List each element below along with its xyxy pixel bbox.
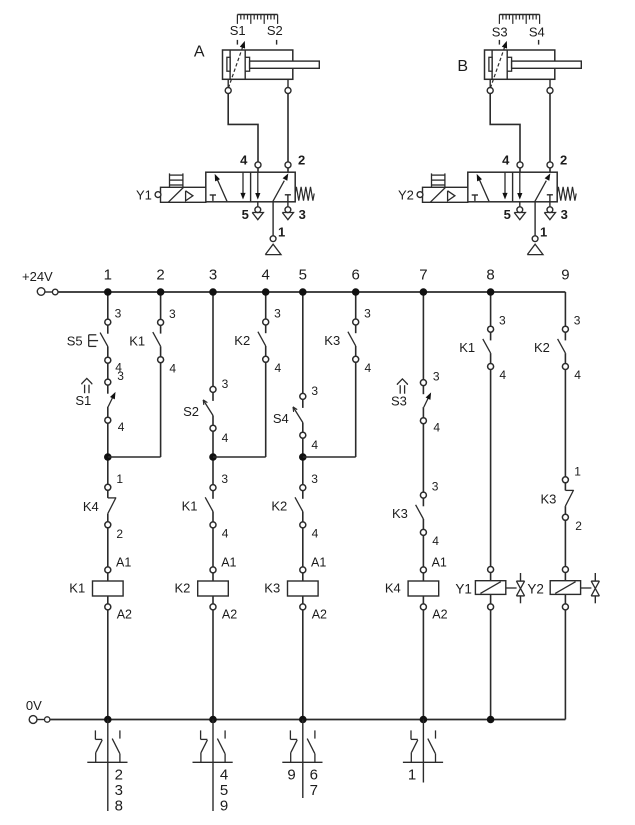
svg-text:1: 1 (104, 267, 112, 284)
svg-text:K4: K4 (385, 581, 401, 596)
svg-text:A1: A1 (116, 555, 131, 569)
svg-text:4: 4 (499, 368, 506, 382)
svg-text:9: 9 (561, 267, 569, 284)
svg-text:2: 2 (156, 267, 164, 284)
svg-text:8: 8 (486, 267, 494, 284)
svg-text:3: 3 (311, 384, 318, 398)
svg-text:2: 2 (560, 153, 567, 168)
svg-text:A1: A1 (221, 555, 236, 569)
svg-text:1: 1 (116, 472, 123, 486)
svg-text:4: 4 (365, 361, 372, 375)
svg-text:S2: S2 (183, 404, 199, 419)
svg-text:+24V: +24V (22, 269, 53, 284)
svg-text:3: 3 (432, 480, 439, 494)
svg-text:Y2: Y2 (398, 188, 414, 203)
svg-text:5: 5 (504, 207, 511, 222)
svg-text:4: 4 (574, 368, 581, 382)
svg-text:S1: S1 (230, 23, 246, 38)
svg-text:A: A (194, 44, 205, 61)
svg-text:K3: K3 (264, 581, 280, 596)
svg-text:A2: A2 (117, 608, 132, 622)
svg-text:3: 3 (222, 377, 229, 391)
svg-text:K1: K1 (459, 340, 475, 355)
svg-text:3: 3 (364, 307, 371, 321)
svg-text:A2: A2 (432, 608, 447, 622)
svg-text:3: 3 (561, 207, 568, 222)
svg-text:S4: S4 (529, 25, 545, 40)
svg-text:Y2: Y2 (527, 581, 544, 596)
svg-text:2: 2 (115, 766, 123, 783)
svg-text:4: 4 (433, 421, 440, 435)
svg-text:8: 8 (115, 797, 123, 814)
svg-text:1: 1 (408, 766, 416, 783)
svg-text:3: 3 (311, 472, 318, 486)
svg-text:4: 4 (262, 267, 270, 284)
svg-text:K3: K3 (324, 333, 340, 348)
svg-text:2: 2 (116, 527, 123, 541)
svg-text:A2: A2 (312, 608, 327, 622)
svg-text:B: B (457, 58, 468, 75)
svg-text:4: 4 (240, 153, 248, 168)
svg-text:S2: S2 (267, 23, 283, 38)
svg-text:4: 4 (222, 431, 229, 445)
svg-text:1: 1 (540, 224, 547, 239)
svg-text:3: 3 (117, 369, 124, 383)
svg-text:0V: 0V (26, 698, 42, 713)
svg-text:K3: K3 (392, 506, 408, 521)
svg-text:4: 4 (222, 527, 229, 541)
svg-text:4: 4 (312, 527, 319, 541)
svg-text:3: 3 (433, 369, 440, 383)
svg-text:4: 4 (169, 361, 176, 375)
svg-text:3: 3 (574, 314, 581, 328)
svg-text:S5: S5 (67, 334, 83, 349)
svg-text:1: 1 (574, 464, 581, 478)
svg-text:K2: K2 (234, 333, 250, 348)
svg-text:3: 3 (499, 314, 506, 328)
svg-text:S3: S3 (492, 25, 508, 40)
svg-text:3: 3 (169, 307, 176, 321)
svg-text:2: 2 (298, 153, 305, 168)
svg-text:5: 5 (242, 207, 249, 222)
svg-text:3: 3 (209, 267, 217, 284)
svg-text:4: 4 (311, 438, 318, 452)
svg-text:5: 5 (299, 267, 307, 284)
svg-text:A1: A1 (432, 555, 447, 569)
svg-text:4: 4 (220, 766, 228, 783)
svg-text:3: 3 (115, 782, 123, 799)
svg-text:1: 1 (278, 224, 285, 239)
svg-text:9: 9 (220, 797, 228, 814)
svg-text:S1: S1 (75, 393, 91, 408)
svg-text:K2: K2 (174, 581, 190, 596)
svg-text:S4: S4 (273, 411, 289, 426)
svg-text:4: 4 (118, 420, 125, 434)
svg-text:K1: K1 (69, 581, 85, 596)
svg-text:K1: K1 (182, 499, 198, 514)
svg-text:Y1: Y1 (455, 581, 472, 596)
svg-text:S3: S3 (391, 393, 407, 408)
svg-text:Y1: Y1 (136, 188, 152, 203)
svg-text:2: 2 (575, 519, 582, 533)
svg-text:7: 7 (310, 782, 318, 799)
svg-text:K2: K2 (534, 340, 550, 355)
svg-text:4: 4 (502, 153, 510, 168)
svg-text:A1: A1 (311, 555, 326, 569)
svg-text:3: 3 (115, 307, 122, 321)
svg-text:6: 6 (310, 766, 318, 783)
svg-text:4: 4 (432, 534, 439, 548)
svg-text:7: 7 (419, 267, 427, 284)
svg-text:5: 5 (220, 782, 228, 799)
svg-text:A2: A2 (222, 608, 237, 622)
svg-text:K4: K4 (83, 499, 99, 514)
svg-text:4: 4 (275, 361, 282, 375)
svg-text:K3: K3 (540, 491, 556, 506)
svg-text:3: 3 (299, 207, 306, 222)
svg-text:6: 6 (352, 267, 360, 284)
svg-text:K2: K2 (271, 499, 287, 514)
svg-text:3: 3 (221, 472, 228, 486)
svg-text:K1: K1 (129, 333, 145, 348)
svg-text:3: 3 (274, 307, 281, 321)
svg-text:9: 9 (287, 766, 295, 783)
